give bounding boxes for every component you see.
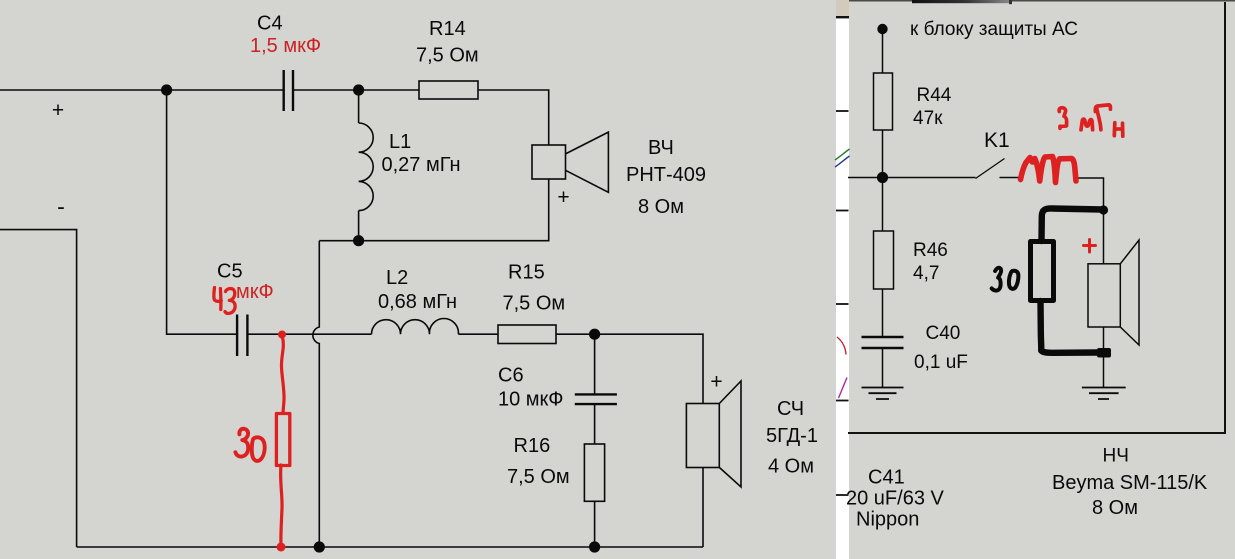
svg-text:5ГД-1: 5ГД-1	[766, 425, 818, 447]
white gap strip	[836, 0, 849, 559]
svg-text:к блоку защиты АС: к блоку защиты АС	[910, 19, 1078, 40]
handwritten wire top segment	[281, 336, 284, 413]
svg-text:РНТ-409: РНТ-409	[626, 164, 706, 186]
resistor R16	[584, 444, 604, 501]
black line under beige block	[836, 16, 849, 18]
wire L1 bottom	[358, 211, 360, 241]
svg-text:0,68 мГн: 0,68 мГн	[378, 291, 457, 313]
svg-text:7,5 Ом: 7,5 Ом	[507, 466, 570, 488]
wire R44 to node	[882, 130, 884, 178]
tick 1	[836, 110, 849, 112]
wire tweeter return	[319, 179, 548, 241]
wire R15 to node	[556, 333, 595, 335]
resistor R46	[874, 231, 894, 289]
green curve fragment	[835, 149, 850, 160]
wire woofer top	[1103, 210, 1105, 264]
svg-text:Beyma SM-115/K: Beyma SM-115/K	[1052, 472, 1208, 494]
node rail hop	[314, 541, 325, 552]
resistor R15	[498, 325, 556, 344]
node to protection	[877, 24, 887, 34]
node rail R16	[589, 541, 600, 552]
wire plus input top	[0, 89, 283, 91]
node input-C4	[161, 84, 172, 95]
resistor R44	[874, 73, 893, 130]
svg-text:C41: C41	[868, 467, 905, 489]
svg-text:C4: C4	[257, 13, 283, 35]
speaker NCH cone	[1120, 240, 1139, 345]
wire main horizontal	[848, 177, 976, 179]
magenta curve fragment	[839, 378, 848, 399]
svg-text:20 uF/63 V: 20 uF/63 V	[846, 488, 945, 510]
handwritten coil 3 mH	[1021, 157, 1077, 183]
svg-text:C5: C5	[217, 261, 243, 283]
svg-text:10 мкФ: 10 мкФ	[498, 389, 564, 411]
node R15-C6	[589, 329, 600, 340]
svg-text:СЧ: СЧ	[777, 398, 804, 420]
handwritten value 3 mH	[1059, 108, 1066, 129]
svg-text:7,5 Ом: 7,5 Ом	[416, 45, 479, 67]
svg-text:R46: R46	[913, 240, 948, 261]
speaker SCH cone	[719, 381, 741, 487]
capacitor C5	[237, 315, 247, 357]
svg-text:7,5 Ом: 7,5 Ом	[503, 293, 566, 315]
svg-text:4 Ом: 4 Ом	[768, 456, 814, 478]
svg-text:8 Ом: 8 Ом	[1092, 497, 1138, 519]
wire R46 to C40	[882, 289, 884, 336]
tick 3	[836, 303, 849, 305]
svg-text:R44: R44	[917, 85, 952, 106]
wire hop vertical with jump	[313, 241, 319, 547]
handwritten 49 value C5	[214, 288, 222, 310]
wire minus input	[0, 230, 77, 547]
wire L1 top	[358, 90, 360, 123]
handwritten value 30	[235, 429, 248, 457]
wire bottom rail	[77, 546, 703, 548]
ground under woofer	[1082, 388, 1126, 400]
handwritten resistor 30	[276, 414, 289, 466]
capacitor C6	[575, 394, 617, 404]
labels right panel	[846, 19, 1208, 531]
svg-text:R16: R16	[514, 435, 551, 457]
svg-text:0,27 мГн: 0,27 мГн	[382, 154, 461, 176]
svg-text:K1: K1	[984, 129, 1010, 152]
handwritten plus woofer	[1084, 240, 1096, 253]
wire C40 to ground	[882, 349, 884, 387]
wire mid branch vertical	[167, 90, 237, 334]
right panel border frame	[848, 2, 1225, 433]
wire node to midrange	[595, 334, 703, 403]
switch fixed contact	[1000, 177, 1021, 179]
wire C6 to R16	[594, 405, 596, 445]
svg-text:L1: L1	[389, 131, 411, 153]
inductor L1	[359, 123, 374, 211]
svg-text:1,5 мкФ: 1,5 мкФ	[250, 35, 321, 57]
speaker VCH box	[532, 145, 566, 179]
svg-text:+: +	[557, 186, 569, 209]
resistor R14	[419, 81, 478, 99]
thick wire bottom run	[1041, 301, 1099, 353]
red handwritten annotations left panel	[214, 288, 290, 546]
tick 5	[836, 494, 849, 496]
svg-text:R15: R15	[508, 262, 545, 284]
node coil-speaker	[1099, 205, 1108, 214]
speaker SCH box	[686, 404, 719, 468]
wire C6 branch top	[594, 334, 596, 394]
wire coil to speaker	[1078, 178, 1104, 210]
wire C5 to L2	[248, 333, 372, 335]
svg-text:L2: L2	[386, 267, 408, 289]
node dots right panel	[877, 24, 1108, 215]
handwritten value 30 black	[992, 268, 1001, 291]
svg-text:C40: C40	[926, 323, 961, 344]
wire to protection block	[882, 33, 884, 73]
svg-text:C6: C6	[498, 365, 524, 387]
svg-text:47к: 47к	[913, 108, 943, 129]
node L1 bottom	[353, 235, 364, 246]
thick handwritten black wire right panel	[992, 208, 1102, 352]
svg-text:НЧ: НЧ	[1103, 446, 1129, 467]
background right panel	[849, 0, 1235, 559]
wire L2 to R15	[458, 333, 498, 335]
background left panel	[0, 0, 836, 559]
axis tick marks in gap	[836, 111, 849, 495]
wire C4 to R14	[294, 89, 420, 91]
navy curve fragment	[835, 156, 850, 167]
svg-text:0,1 uF: 0,1 uF	[914, 352, 968, 373]
svg-text:Nippon: Nippon	[856, 509, 919, 531]
svg-text:мкФ: мкФ	[236, 281, 274, 303]
speaker NCH box	[1088, 264, 1120, 327]
inductor L2	[372, 318, 459, 334]
tick 4	[836, 400, 849, 402]
tick 2	[836, 210, 849, 212]
switch K1 blade	[976, 159, 1005, 179]
wire midrange return	[702, 467, 704, 547]
svg-text:ВЧ: ВЧ	[648, 137, 674, 159]
svg-text:8 Ом: 8 Ом	[638, 196, 684, 218]
node junction dots left panel	[161, 84, 600, 552]
handwritten wire bottom segment	[281, 465, 282, 545]
ground under C40	[862, 388, 904, 400]
red curve fragment	[837, 337, 846, 355]
node R44-R46	[877, 172, 888, 183]
wire R16 to rail	[594, 501, 596, 547]
wire R14 to tweeter	[478, 90, 549, 145]
wire node down to R46	[882, 178, 884, 232]
capacitor C4	[284, 70, 293, 111]
speaker VCH cone	[566, 132, 609, 192]
labels left panel	[52, 13, 818, 489]
svg-text:-: -	[57, 194, 65, 220]
top thin border line right panel	[849, 0, 1235, 2]
svg-text:4,7: 4,7	[913, 263, 939, 284]
red node dots handwritten wire	[277, 331, 287, 552]
svg-text:+: +	[710, 371, 722, 394]
capacitor C40	[862, 337, 904, 348]
thick wire top run	[1042, 208, 1103, 241]
wire woofer return	[1103, 327, 1105, 387]
svg-text:R14: R14	[429, 18, 466, 40]
red handwritten annotations right panel	[1021, 105, 1123, 252]
thick square blob on speaker wire	[1097, 348, 1111, 358]
top beige block in gap	[836, 0, 849, 16]
node C4-L1	[353, 84, 364, 95]
svg-text:+: +	[52, 99, 64, 122]
thick resistor body	[1031, 242, 1054, 301]
